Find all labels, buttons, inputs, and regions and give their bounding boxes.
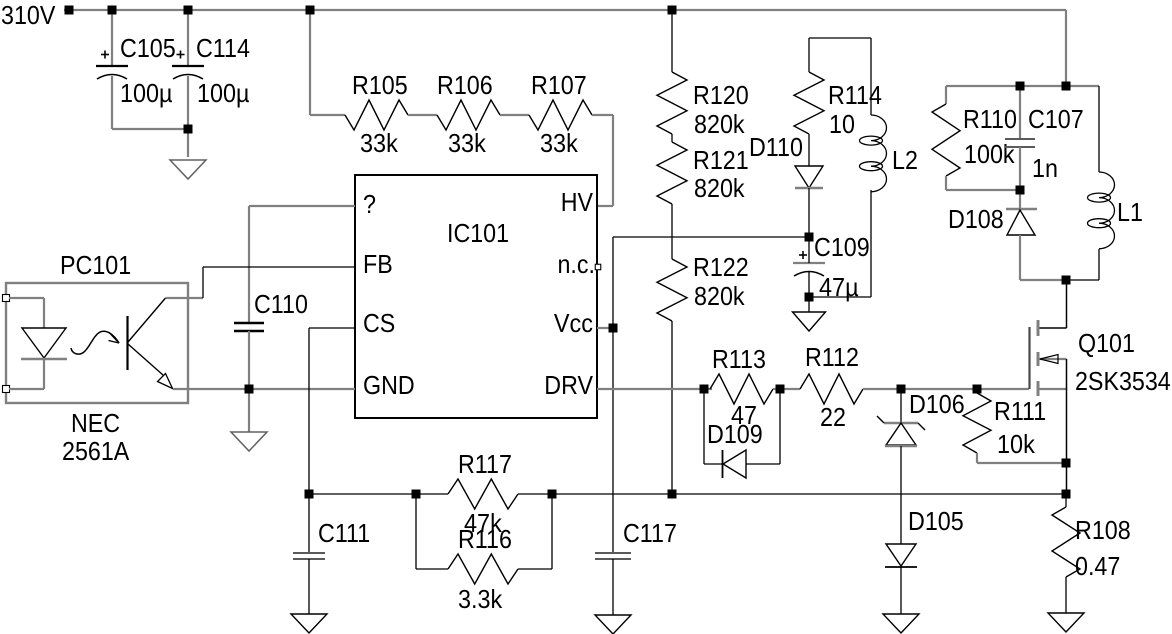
wire current sense node [309, 493, 1066, 495]
resistor R105 [345, 100, 408, 130]
capacitor C117 [595, 553, 631, 559]
svg-text:33k: 33k [360, 128, 399, 158]
svg-text:R105: R105 [352, 70, 408, 100]
svg-text:R110: R110 [963, 104, 1017, 134]
junction: junction DRV at D109 left [700, 385, 709, 394]
resistor R122 [657, 259, 687, 321]
svg-text:C105: C105 [120, 33, 176, 63]
svg-text:D109: D109 [707, 419, 763, 449]
svg-text:L2: L2 [892, 145, 918, 175]
light arrow inside PC101 [71, 331, 119, 354]
svg-text:100µ: 100µ [120, 78, 173, 108]
resistor R114 [794, 72, 824, 134]
wire R110 bottom [946, 176, 1016, 190]
wire C105 branch [112, 10, 188, 129]
wire R112 to Q101 gate [863, 388, 1029, 390]
svg-text:R114: R114 [828, 80, 882, 110]
svg-text:Q101: Q101 [1078, 328, 1135, 358]
pin marker PC101 anode [3, 295, 10, 302]
junction: junction C105/C114 bottom [184, 125, 193, 134]
capacitor C111 [293, 553, 325, 559]
wire C109 leads [808, 237, 810, 297]
wire C117 to ground [612, 559, 614, 615]
svg-text:R113: R113 [712, 344, 766, 374]
wire ? pin to C110 [249, 206, 355, 323]
wire snubber top rail [946, 85, 1099, 87]
capacitor C107 [1005, 139, 1035, 147]
svg-text:R112: R112 [805, 342, 859, 372]
wire 310V rail [64, 10, 1066, 86]
ground under C114 [170, 160, 206, 179]
inductor L1 [1066, 86, 1115, 280]
svg-text:HV: HV [561, 187, 594, 217]
resistor R106 [437, 100, 500, 130]
svg-text:2SK3534: 2SK3534 [1075, 366, 1171, 396]
diode D109 with loop [704, 389, 780, 478]
junction: junction drain node [1062, 276, 1071, 285]
svg-text:10k: 10k [997, 429, 1036, 459]
svg-text:10: 10 [829, 109, 855, 139]
junction: junction 310V rail at C114 [184, 6, 193, 15]
wire rail to C107 [1019, 86, 1021, 139]
wire aux top R114/L2 [809, 38, 871, 115]
wire CS pin down to sense node [309, 328, 355, 494]
svg-text:C109: C109 [814, 232, 870, 262]
resistor R108 [1052, 507, 1080, 577]
wire D110 to C109 [808, 188, 810, 237]
svg-text:R106: R106 [437, 70, 493, 100]
resistor R113 [710, 374, 773, 404]
svg-text:820k: 820k [694, 109, 745, 139]
svg-text:PC101: PC101 [60, 250, 131, 280]
svg-text:3.3k: 3.3k [458, 584, 503, 614]
junction: junction Vcc pin [609, 324, 618, 333]
wire D106 to D105 [900, 446, 902, 544]
svg-text:D108: D108 [948, 204, 1004, 234]
svg-text:R120: R120 [693, 80, 749, 110]
zener diode D106 [877, 389, 925, 446]
svg-text:820k: 820k [694, 173, 745, 203]
svg-text:C107: C107 [1028, 104, 1084, 134]
svg-text:C111: C111 [318, 518, 370, 548]
junction: junction sense at R117 left [412, 490, 421, 499]
junction: junction snubber rail at 310V drop [1062, 82, 1071, 91]
capacitor C105 [96, 51, 128, 80]
junction: junction sense at C111/CS [305, 490, 314, 499]
capacitor C109 [793, 251, 825, 276]
resistor R120 [657, 72, 687, 134]
svg-text:D110: D110 [749, 132, 803, 162]
IC U-box IC101 [355, 175, 597, 418]
wire PC101 collector to FB pin [166, 267, 356, 298]
junction: junction 310V rail at R120 feed [668, 6, 677, 15]
svg-text:NEC: NEC [71, 408, 120, 438]
svg-text:R117: R117 [458, 449, 512, 479]
svg-text:R111: R111 [994, 396, 1046, 426]
junction: junction C110/GND wire [245, 385, 254, 394]
svg-text:FB: FB [363, 249, 393, 279]
junction: junction R110/C107/D108 [1016, 186, 1025, 195]
wire D108 to drain node [1020, 235, 1062, 280]
svg-text:R116: R116 [458, 524, 512, 554]
ground under R108 [1048, 613, 1084, 632]
wire sense to C111 [308, 494, 310, 553]
junction: junction 310V rail start [65, 6, 74, 15]
svg-text:33k: 33k [448, 128, 487, 158]
resistor R121 [657, 142, 687, 204]
junction: junction gate node at D106 [897, 385, 906, 394]
svg-text:D105: D105 [908, 506, 964, 536]
wire gate node to R111 [976, 389, 978, 393]
svg-text:Vcc: Vcc [554, 308, 593, 338]
wire PC101 LED cathode [9, 359, 44, 389]
pin marker PC101 cathode [3, 386, 10, 393]
svg-text:C114: C114 [196, 33, 250, 63]
resistor R110 [932, 104, 960, 176]
svg-text:47µ: 47µ [819, 272, 859, 302]
diode D105 [885, 544, 917, 567]
wire rail to R110 [945, 86, 947, 104]
wire Vcc net to C109/C117 [613, 237, 809, 553]
resistor R117 [448, 479, 518, 509]
wire source to R108 [1065, 494, 1067, 507]
optocoupler PC101 body [6, 283, 188, 403]
svg-text:0.47: 0.47 [1075, 551, 1120, 581]
resistor R112 [800, 374, 863, 404]
ground under C109 [793, 312, 826, 331]
wire C110 to ground node [248, 331, 250, 389]
svg-text:100k: 100k [964, 139, 1015, 169]
svg-text:33k: 33k [540, 128, 579, 158]
transistor Q101 [1030, 280, 1067, 494]
junction: junction gate node at R111 [973, 385, 982, 394]
wire rail to R105 [310, 10, 345, 115]
wire C114 branch [187, 10, 189, 157]
resistor R107 [529, 100, 592, 130]
svg-text:R107: R107 [531, 70, 587, 100]
wire Vcc pin stub [597, 327, 613, 329]
svg-text:22: 22 [820, 402, 846, 432]
wire R105 to R106 [408, 114, 437, 116]
svg-text:D106: D106 [909, 389, 965, 419]
ground under C111 [291, 614, 327, 633]
wire PC101 emitter to GND pin [173, 388, 355, 390]
capacitor C114 [172, 51, 204, 80]
wire R106 to R107 [500, 114, 529, 116]
svg-text:R121: R121 [693, 145, 749, 175]
svg-text:R122: R122 [693, 252, 749, 282]
ground under C117 [595, 615, 631, 634]
junction: junction snubber rail at C107 [1016, 82, 1025, 91]
LED inside PC101 [21, 328, 67, 359]
svg-text:CS: CS [363, 308, 395, 338]
inductor L2 [860, 115, 887, 192]
junction: junction source/R111 [1062, 459, 1071, 468]
svg-text:IC101: IC101 [447, 218, 509, 248]
wire R120 to R121 [671, 134, 673, 142]
svg-text:GND: GND [363, 370, 415, 400]
junction: junction source/sense wire [1062, 490, 1071, 499]
wire C111 to ground [308, 559, 310, 614]
wire R122 to sense node [671, 321, 673, 494]
junction: junction 310V rail at C105 [108, 6, 117, 15]
wire C109 to ground [808, 297, 810, 312]
svg-text:2561A: 2561A [62, 436, 130, 466]
phototransistor inside PC101 [128, 298, 173, 389]
svg-text:L1: L1 [1117, 197, 1143, 227]
wire R114 to D110 [808, 134, 810, 166]
junction: junction C109 bottom [805, 293, 814, 302]
svg-text:C117: C117 [623, 518, 677, 548]
wire R121 to R122 [671, 204, 673, 259]
junction: junction R113/R112 node [776, 385, 785, 394]
wire PC101 LED anode [9, 298, 44, 328]
wire R108 to ground [1065, 577, 1067, 613]
svg-text:DRV: DRV [544, 370, 593, 400]
svg-text:?: ? [363, 189, 376, 219]
wire L2 bottom to C109 bottom [809, 190, 871, 297]
svg-text:n.c.: n.c. [558, 249, 596, 279]
junction: junction Vcc/C109 top [805, 233, 814, 242]
wire rail to R120 [671, 10, 673, 72]
wire R113 to R112 [773, 388, 800, 390]
svg-text:C110: C110 [254, 289, 308, 319]
diode D110 [795, 166, 823, 188]
junction: junction sense at R122 [668, 490, 677, 499]
ground under D105 [883, 614, 919, 633]
wire DRV pin to R113 [597, 388, 712, 390]
wire R107 to HV pin [592, 115, 613, 206]
resistor R116 with loop [416, 494, 552, 584]
wire D105 to ground [900, 567, 902, 614]
svg-text:310V: 310V [1, 0, 56, 30]
junction: junction sense at R117 right [548, 490, 557, 499]
resistor R111 [963, 393, 991, 453]
svg-text:R108: R108 [1075, 515, 1131, 545]
capacitor C110 [234, 323, 264, 331]
ground under C110 [231, 432, 267, 451]
no-connect marker at n.c. pin [595, 264, 601, 270]
svg-text:100µ: 100µ [197, 78, 250, 108]
wire R111 to source node [977, 453, 1066, 463]
diode D108 [1006, 190, 1037, 235]
junction: junction 310V rail at R105 feed [306, 6, 315, 15]
svg-text:820k: 820k [694, 281, 745, 311]
svg-text:1n: 1n [1032, 153, 1058, 183]
wire to ground under C110 [248, 389, 250, 432]
wire C107 to D108 [1019, 147, 1021, 190]
